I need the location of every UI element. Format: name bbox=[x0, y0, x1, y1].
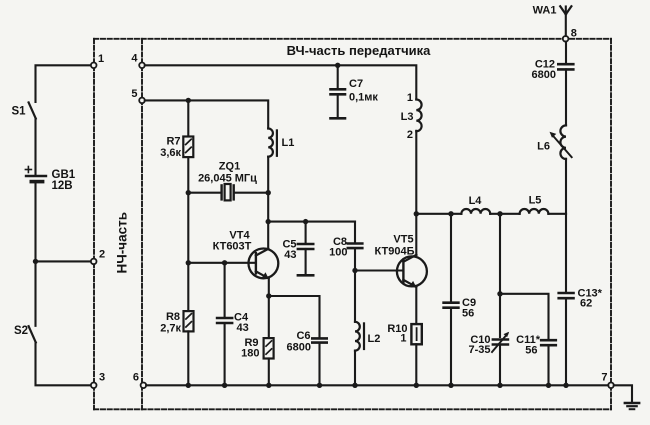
resistor R9 body bbox=[264, 338, 274, 358]
junction rail C4 bbox=[222, 383, 227, 388]
inductor L2 lead top bbox=[354, 271, 356, 322]
resistor R8 lead top bbox=[187, 263, 189, 311]
wire S2 to node3 bbox=[36, 342, 92, 385]
resistor R7 lead bottom / wire to base junction bbox=[187, 157, 189, 263]
svg-text:6: 6 bbox=[133, 372, 139, 384]
dashed enclosure ВЧ-часть top border bbox=[94, 38, 611, 40]
ground symbol bbox=[625, 402, 639, 404]
terminal node 8 bbox=[563, 36, 569, 42]
dashed enclosure left border bbox=[93, 39, 95, 410]
svg-text:4: 4 bbox=[131, 53, 138, 65]
svg-text:R8: R8 bbox=[166, 311, 180, 323]
capacitor C5 lead bottom bbox=[305, 249, 307, 275]
trimmer capacitor C10 plates bbox=[493, 338, 508, 341]
junction rail R8 bbox=[186, 383, 191, 388]
trimmer C10 arrow bbox=[492, 334, 507, 352]
junction rail R10 bbox=[414, 383, 419, 388]
svg-text:WA1: WA1 bbox=[533, 4, 557, 16]
svg-text:C6: C6 bbox=[296, 330, 310, 342]
wire L1 bottom to crystal junction and collector rail bbox=[267, 157, 269, 222]
terminal node 6 bbox=[141, 383, 147, 389]
wire L5 to right rail corner bbox=[548, 213, 566, 215]
transistor VT4 base bar bbox=[255, 253, 257, 273]
wire S1 to battery bbox=[34, 119, 36, 175]
svg-text:43: 43 bbox=[237, 322, 249, 334]
transistor VT5 circle bbox=[397, 256, 427, 286]
svg-text:1: 1 bbox=[98, 53, 104, 65]
junction R7 top bbox=[186, 98, 191, 103]
inductor L2 core bar bbox=[363, 323, 365, 349]
svg-text:R7: R7 bbox=[166, 136, 180, 148]
svg-text:12В: 12В bbox=[52, 180, 73, 192]
svg-text:1: 1 bbox=[400, 333, 406, 345]
svg-text:100: 100 bbox=[329, 247, 347, 259]
wire L6 top to C12 bbox=[565, 69, 567, 125]
svg-text:НЧ-часть: НЧ-часть bbox=[115, 212, 130, 274]
junction C8 bottom / VT5 base / L2 bbox=[352, 268, 357, 273]
transistor VT5 base bar bbox=[402, 260, 404, 283]
inductor L6 tuning arrow bbox=[552, 135, 571, 157]
capacitor C6 plates bbox=[312, 337, 326, 340]
wire right rail corner up to L6 bbox=[565, 159, 567, 214]
inductor L1 coil bbox=[268, 129, 273, 157]
transistor VT4 circle bbox=[249, 249, 279, 279]
transistor VT5 emitter stroke with arrow bbox=[403, 280, 416, 287]
svg-text:VT5: VT5 bbox=[393, 234, 413, 246]
junction rail C9 bbox=[448, 383, 453, 388]
resistor R8 lead bottom bbox=[187, 331, 189, 385]
inductor L2 coil bbox=[355, 322, 360, 351]
svg-text:7: 7 bbox=[601, 372, 607, 384]
junction rail C11 bbox=[546, 383, 551, 388]
svg-text:КТ904Б: КТ904Б bbox=[375, 246, 415, 258]
collector rail wire to C8 bbox=[268, 221, 355, 223]
wire junction to S2 top bbox=[34, 261, 36, 325]
dashed enclosure bottom border bbox=[94, 408, 611, 410]
terminal node 2 bbox=[91, 259, 97, 265]
wire VT5 emitter down to R10 bbox=[415, 287, 417, 324]
svg-text:7-35: 7-35 bbox=[468, 344, 490, 356]
bottom common rail node6 to node7 bbox=[146, 384, 608, 386]
resistor R7 body bbox=[183, 137, 193, 158]
dashed enclosure right border bbox=[610, 39, 612, 410]
svg-text:L2: L2 bbox=[368, 333, 381, 345]
inductor L6 coil bbox=[560, 125, 566, 159]
junction C9 top bbox=[448, 211, 453, 216]
crystal ZQ1 wire right bbox=[235, 192, 268, 194]
wire C10 branch from rail bbox=[499, 214, 501, 337]
battery plus sign bbox=[25, 167, 31, 173]
capacitor C9 lead top bbox=[450, 214, 452, 302]
svg-text:S1: S1 bbox=[12, 106, 27, 118]
svg-text:2: 2 bbox=[407, 129, 413, 141]
junction VT4 base left bbox=[186, 260, 191, 265]
junction rail C10 bbox=[497, 383, 502, 388]
wire node1 to S1 top bbox=[36, 65, 92, 102]
svg-text:L3: L3 bbox=[401, 111, 414, 123]
svg-text:62: 62 bbox=[580, 298, 592, 310]
capacitor C8 plates bbox=[348, 242, 363, 245]
svg-text:L4: L4 bbox=[469, 195, 483, 207]
resistor R10 body bbox=[411, 324, 421, 344]
terminal node 7 bbox=[608, 383, 614, 389]
terminal node 5 bbox=[139, 98, 145, 104]
junction crystal right bbox=[266, 190, 271, 195]
wire VT4 base bbox=[188, 262, 256, 264]
terminal node 4 bbox=[139, 63, 145, 69]
svg-text:L1: L1 bbox=[282, 137, 295, 149]
resistor R8 body bbox=[184, 311, 194, 331]
wire VT4 collector up to rail bbox=[267, 222, 269, 249]
svg-text:L6: L6 bbox=[537, 141, 550, 153]
wire node5 to L1 corner bbox=[145, 100, 268, 128]
svg-text:3,6к: 3,6к bbox=[160, 147, 181, 159]
crystal ZQ1 wire left bbox=[188, 192, 221, 194]
terminal node 3 bbox=[91, 383, 97, 389]
junction rail R9 bbox=[266, 383, 271, 388]
terminal node 1 bbox=[91, 63, 97, 69]
inductor L2 lead bottom bbox=[354, 351, 356, 386]
inductor L4 coil bbox=[461, 209, 490, 214]
wire node 8 to antenna bbox=[565, 7, 567, 37]
inductor L5 coil bbox=[520, 209, 549, 214]
transistor VT5 collector stroke bbox=[403, 255, 416, 262]
capacitor C13 plates bbox=[559, 292, 574, 295]
svg-text:6800: 6800 bbox=[287, 342, 311, 354]
junction rail C13 bbox=[563, 383, 568, 388]
junction C7 top bbox=[335, 63, 340, 68]
capacitor C6 lead bottom bbox=[318, 343, 320, 386]
svg-text:8: 8 bbox=[571, 28, 577, 40]
resistor R7 lead top bbox=[187, 100, 189, 136]
capacitor C10 lead bottom bbox=[499, 345, 501, 386]
capacitor C7 lead bottom bbox=[337, 94, 339, 117]
capacitor C11 lead bottom bbox=[547, 345, 549, 385]
svg-text:43: 43 bbox=[284, 249, 296, 261]
junction C5 top bbox=[303, 219, 308, 224]
junction rail L2 bbox=[352, 383, 357, 388]
svg-text:6800: 6800 bbox=[532, 69, 556, 81]
wire junction to C11 branch bbox=[500, 294, 549, 339]
svg-text:C7: C7 bbox=[349, 78, 363, 90]
battery GB1 positive plate bbox=[26, 175, 46, 177]
transistor VT4 emitter stroke with arrow bbox=[256, 271, 269, 278]
svg-text:2,7к: 2,7к bbox=[160, 323, 181, 335]
svg-text:56: 56 bbox=[525, 345, 537, 357]
svg-text:S2: S2 bbox=[14, 325, 28, 337]
switch S1 bbox=[29, 102, 36, 118]
dashed divider НЧ-часть bbox=[141, 39, 143, 410]
junction rail C6 bbox=[317, 383, 322, 388]
junction collector rail left bbox=[266, 219, 271, 224]
output rail wire L3 junction to L4 bbox=[416, 213, 461, 215]
capacitor C11 plates bbox=[541, 339, 556, 342]
wire battery to junction bbox=[34, 182, 36, 262]
capacitor C5 lead top bbox=[305, 222, 307, 243]
capacitor C8 lead bottom bbox=[354, 248, 356, 270]
svg-text:ZQ1: ZQ1 bbox=[219, 161, 240, 173]
ground bar of C7 bbox=[331, 117, 346, 120]
junction battery/S2/node2 bbox=[33, 259, 38, 264]
capacitor C4 lead top bbox=[224, 263, 226, 317]
wire VT5 collector up to rail junction bbox=[415, 214, 417, 255]
capacitor C7 lead top bbox=[337, 65, 339, 88]
svg-text:2: 2 bbox=[99, 249, 105, 261]
capacitor C7 plates bbox=[331, 88, 346, 91]
wire VT4 emitter down bbox=[268, 278, 270, 296]
svg-text:КТ603Т: КТ603Т bbox=[213, 241, 252, 253]
wire L3 bottom to rail junction bbox=[415, 131, 417, 214]
capacitor C4 lead bottom bbox=[224, 323, 226, 385]
resistor R10 lead bottom bbox=[415, 344, 417, 385]
resistor R9 lead bottom bbox=[268, 359, 270, 386]
svg-text:56: 56 bbox=[462, 308, 474, 320]
antenna WA1 symbol bbox=[560, 6, 566, 14]
crystal ZQ1 body bbox=[225, 184, 231, 200]
svg-text:180: 180 bbox=[241, 348, 259, 360]
resistor R9 lead top bbox=[268, 296, 270, 338]
wire emitter junction to C6 corner bbox=[269, 296, 320, 337]
svg-text:5: 5 bbox=[131, 88, 137, 100]
svg-text:0,1мк: 0,1мк bbox=[349, 92, 378, 104]
wire C12 top to node 8 bbox=[565, 42, 567, 65]
inductor L3 coil bbox=[416, 100, 421, 132]
switch S2 bbox=[29, 326, 36, 342]
junction C10/C11 bbox=[497, 291, 502, 296]
wire L4 to L5 bbox=[490, 213, 519, 215]
svg-text:ВЧ-часть передатчика: ВЧ-часть передатчика bbox=[287, 43, 431, 58]
wire node4 supply rail to L3 corner bbox=[145, 65, 417, 99]
transistor VT4 collector stroke bbox=[256, 249, 269, 256]
wire VT5 base bbox=[355, 269, 403, 271]
capacitor C12 plates bbox=[558, 63, 573, 66]
crystal ZQ1 electrode right bbox=[232, 185, 234, 199]
svg-text:3: 3 bbox=[99, 372, 105, 384]
crystal ZQ1 electrode left bbox=[220, 185, 222, 199]
capacitor C9 plates bbox=[444, 301, 459, 304]
wire junction to node2 bbox=[36, 260, 92, 262]
junction crystal left bbox=[186, 190, 191, 195]
capacitor C8 lead top bbox=[354, 222, 356, 243]
right rail corner down to C13 bbox=[565, 214, 567, 292]
capacitor C4 plates bbox=[217, 317, 232, 320]
junction C4 top bbox=[222, 260, 227, 265]
junction C10 branch top bbox=[497, 211, 502, 216]
capacitor C13 lead bottom bbox=[565, 298, 567, 385]
svg-text:26,045 МГц: 26,045 МГц bbox=[198, 173, 257, 185]
junction VT4 emitter bbox=[266, 293, 271, 298]
svg-text:L5: L5 bbox=[529, 195, 542, 207]
wire node7 to ground bbox=[614, 385, 632, 402]
capacitor C5 plates bbox=[298, 243, 313, 246]
battery GB1 negative plate bbox=[31, 180, 42, 184]
inductor L1 core bar bbox=[276, 130, 278, 155]
ground bar of C5 bbox=[298, 274, 313, 277]
svg-text:1: 1 bbox=[407, 92, 413, 104]
capacitor C9 lead bottom bbox=[450, 308, 452, 386]
junction L3 / VT5 collector / rail bbox=[414, 211, 419, 216]
